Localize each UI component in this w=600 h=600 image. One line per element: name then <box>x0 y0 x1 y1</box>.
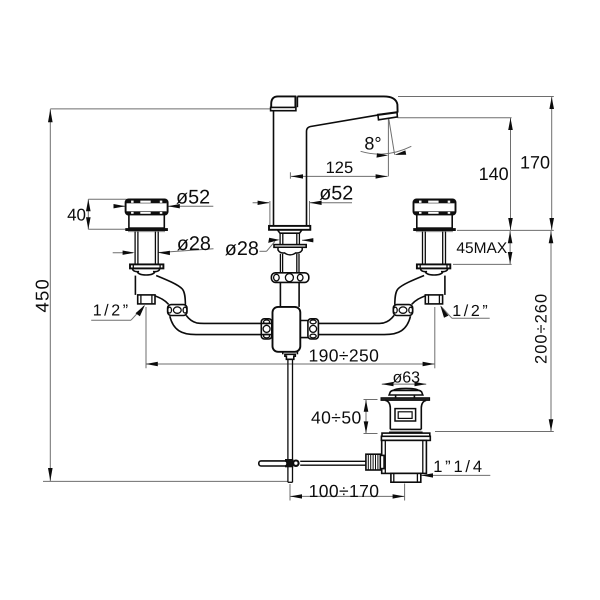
svg-text:ø28: ø28 <box>225 238 259 260</box>
svg-text:40÷50: 40÷50 <box>311 407 362 427</box>
svg-text:1/2”: 1/2” <box>93 302 131 319</box>
svg-text:125: 125 <box>326 159 354 177</box>
svg-text:190÷250: 190÷250 <box>309 346 380 366</box>
svg-text:ø63: ø63 <box>393 369 421 386</box>
svg-text:ø52: ø52 <box>319 182 353 204</box>
svg-text:1”1/4: 1”1/4 <box>433 458 485 476</box>
svg-text:1/2”: 1/2” <box>452 303 490 320</box>
svg-text:170: 170 <box>520 152 550 172</box>
svg-text:100÷170: 100÷170 <box>309 481 380 501</box>
svg-text:ø28: ø28 <box>177 233 211 255</box>
svg-text:140: 140 <box>479 164 509 184</box>
svg-text:45MAX: 45MAX <box>456 240 507 257</box>
svg-text:8°: 8° <box>364 133 381 153</box>
svg-text:ø52: ø52 <box>176 187 210 209</box>
svg-text:40: 40 <box>67 206 86 225</box>
svg-text:450: 450 <box>31 278 52 312</box>
svg-text:200÷260: 200÷260 <box>532 293 550 364</box>
